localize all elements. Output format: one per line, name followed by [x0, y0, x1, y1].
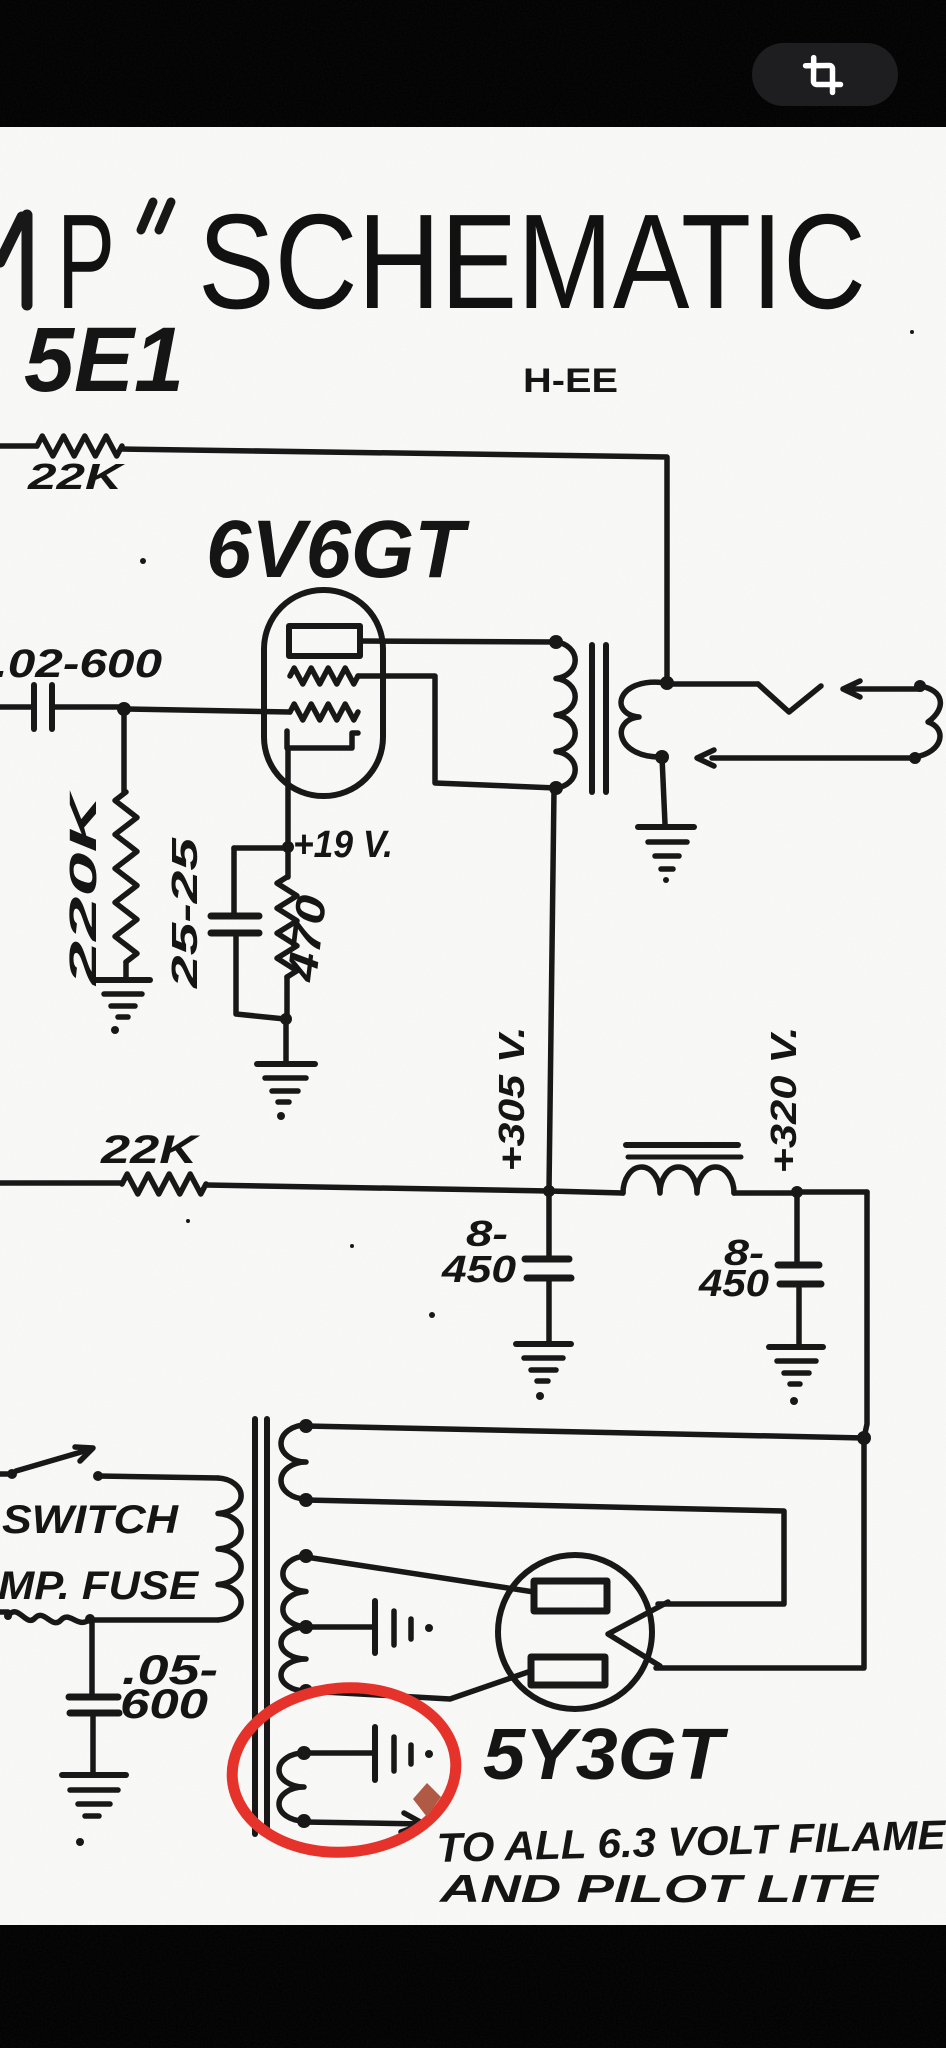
svg-text:5Y3GT: 5Y3GT	[483, 1715, 729, 1795]
svg-text:22K: 22K	[100, 1128, 201, 1172]
svg-text:22K: 22K	[27, 456, 127, 497]
svg-text:H-EE: H-EE	[523, 362, 618, 400]
svg-text:8-: 8-	[466, 1213, 508, 1254]
svg-text:6V6GT: 6V6GT	[206, 504, 470, 595]
svg-text:AND PILOT LITE: AND PILOT LITE	[439, 1868, 880, 1911]
svg-text:450: 450	[441, 1249, 516, 1291]
svg-text:5E1: 5E1	[24, 309, 184, 411]
svg-text:MP. FUSE: MP. FUSE	[0, 1564, 199, 1608]
svg-text:SCHEMATIC: SCHEMATIC	[198, 186, 866, 337]
svg-text:450: 450	[698, 1263, 769, 1305]
svg-text:+19 V.: +19 V.	[293, 824, 393, 866]
svg-text:.02-600: .02-600	[0, 642, 162, 686]
svg-text:25-25: 25-25	[164, 836, 205, 989]
svg-text:SWITCH: SWITCH	[2, 1498, 179, 1542]
svg-text:600: 600	[120, 1680, 208, 1727]
svg-text:220K: 220K	[63, 790, 105, 987]
svg-text:+305 V.: +305 V.	[491, 1027, 532, 1172]
svg-text:+320 V.: +320 V.	[763, 1027, 804, 1174]
